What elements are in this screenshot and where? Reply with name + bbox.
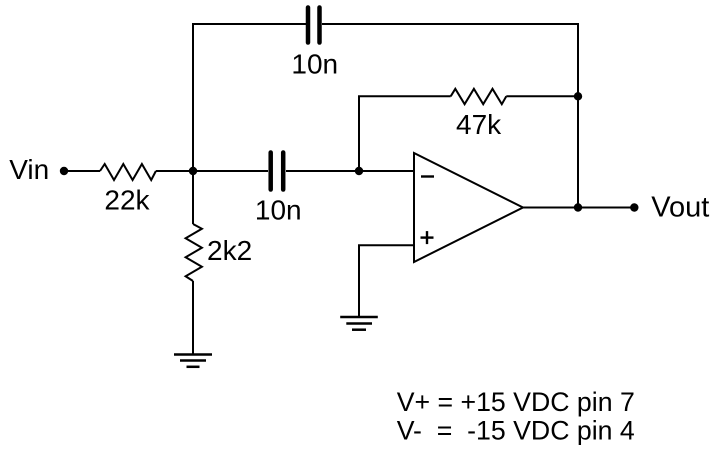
svg-text:22k: 22k — [104, 185, 150, 216]
svg-text:2k2: 2k2 — [207, 235, 252, 266]
svg-text:Vin: Vin — [9, 154, 49, 185]
svg-text:47k: 47k — [456, 109, 502, 140]
svg-text:10n: 10n — [255, 195, 302, 226]
svg-text:V- = -15 VDC pin 4: V- = -15 VDC pin 4 — [397, 415, 635, 445]
svg-text:V+ = +15 VDC pin 7: V+ = +15 VDC pin 7 — [397, 387, 635, 417]
svg-text:Vout: Vout — [651, 191, 709, 223]
svg-text:10n: 10n — [291, 48, 338, 79]
